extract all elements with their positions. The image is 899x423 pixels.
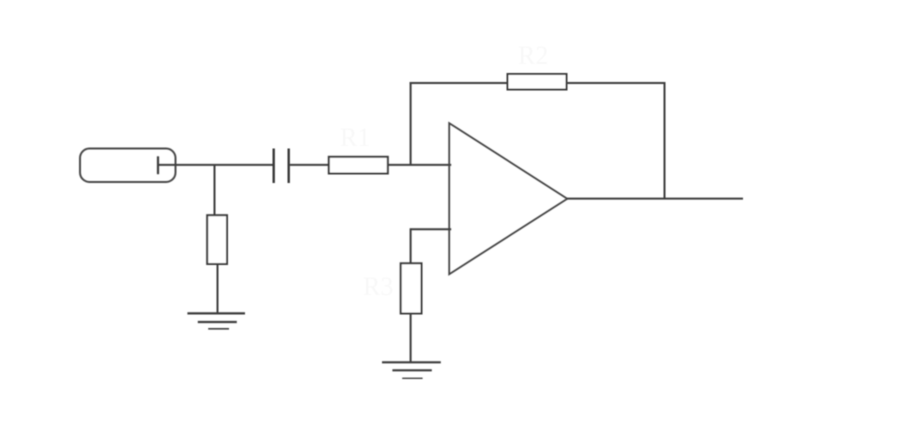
resistor (mic bias, unlabeled) — [207, 215, 227, 264]
wire: op-amp output to the right — [567, 198, 743, 200]
svg-text:R2: R2 — [518, 41, 548, 70]
wire: feedback right vertical down to output — [664, 82, 666, 199]
wire: feedback top, right segment — [567, 82, 666, 84]
resistor R2 body (feedback) — [508, 74, 567, 90]
wire: feedback left vertical (input node up to feedback) — [410, 82, 412, 165]
microphone MK1 terminal bar — [157, 156, 159, 174]
wire: R3 to ground — [410, 314, 412, 363]
wire: non-inverting input horizontal — [411, 228, 452, 230]
ground (left) — [187, 313, 245, 328]
wire: capacitor to resistor R1 — [290, 164, 329, 166]
wire: node down from input wire to bias resistor — [214, 165, 216, 216]
wire: feedback top, left segment — [410, 82, 508, 84]
capacitor C1 plate right — [288, 149, 290, 184]
svg-text:R1: R1 — [340, 123, 370, 152]
wire: bias resistor to ground — [217, 264, 219, 314]
wire: R1 to op-amp inverting input — [388, 164, 451, 166]
wire: mic output to capacitor C left plate — [158, 164, 273, 166]
ground (below R3) — [382, 362, 441, 378]
capacitor C1 plate left — [273, 149, 275, 184]
microphone MK1 (rounded body) — [80, 149, 176, 183]
resistor R1 body — [329, 157, 388, 174]
op-amp U1 (triangle) — [449, 123, 567, 274]
wire: non-inverting node down to R3 — [410, 228, 412, 263]
svg-text:R3: R3 — [363, 272, 393, 301]
resistor R3 body — [401, 263, 422, 313]
